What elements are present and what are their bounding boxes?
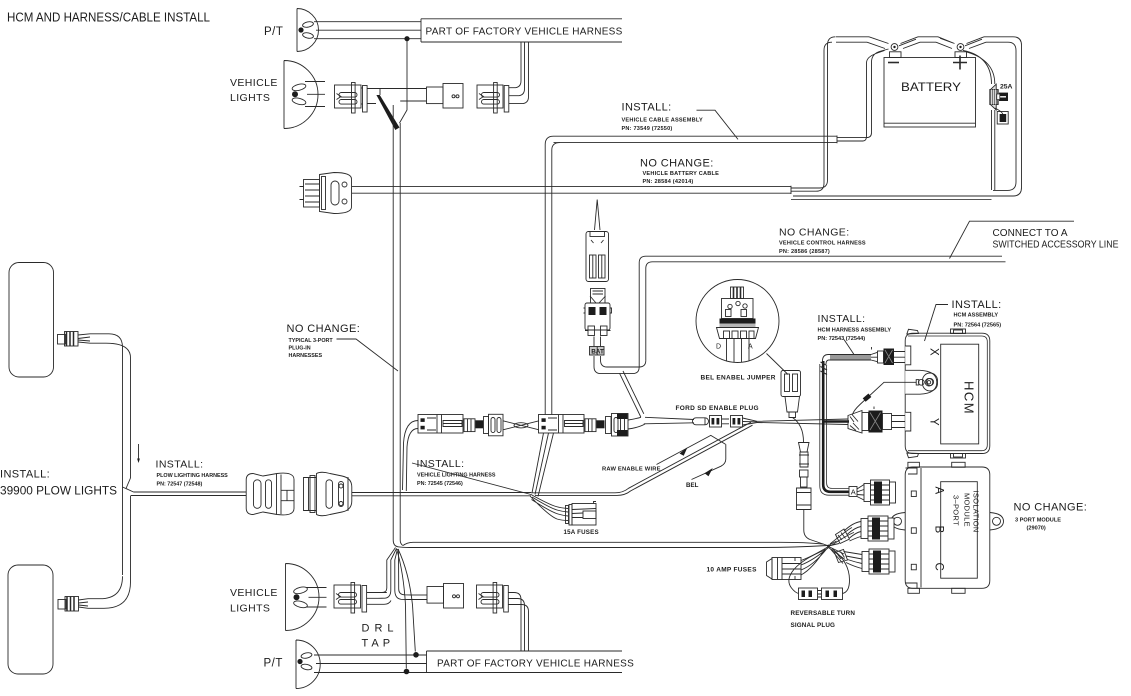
wire plow connector to 15A junction xyxy=(352,493,531,496)
svg-text:PN: 73549 (72550): PN: 73549 (72550) xyxy=(622,126,673,132)
X plug fan xyxy=(871,352,878,361)
svg-text:3–PORT: 3–PORT xyxy=(952,495,961,526)
vehicle cable tail pair to battery negative xyxy=(837,49,889,141)
wire positive to fuse xyxy=(963,51,995,191)
node dot bottom bottom-wire xyxy=(404,669,410,675)
heavy Y branch xyxy=(825,420,850,423)
BEL sleeve right edge leader xyxy=(692,444,726,479)
harness wrap (black tape) top row xyxy=(376,95,399,130)
wire control-harness branch diagonal to lighting run xyxy=(620,371,644,417)
Y plug connector xyxy=(862,407,905,433)
vehicle cable assembly (thick cable to battery) xyxy=(545,136,837,151)
vehicle control harness pair (to switched accessory) xyxy=(639,256,1005,367)
ford sd plug block 2 xyxy=(731,416,743,428)
vehicle cable verticals down to lighting row xyxy=(545,145,552,415)
svg-text:A: A xyxy=(748,344,753,351)
reversible plug block 1 xyxy=(799,588,818,600)
bullet connector stack xyxy=(797,443,812,510)
factory vehicle harness box (bottom) xyxy=(427,651,623,673)
wire eyelet to Y bundle xyxy=(853,382,917,414)
connector vehicle lights right (bottom row) xyxy=(477,583,509,614)
svg-text:Y: Y xyxy=(928,418,940,426)
isolation top tabs xyxy=(906,462,966,474)
svg-text:B: B xyxy=(933,526,945,534)
svg-text:NO CHANGE:: NO CHANGE: xyxy=(287,323,361,335)
wire long vertical pair (DRL harness run) xyxy=(393,105,400,540)
svg-text:HARNESSES: HARNESSES xyxy=(289,353,323,359)
wires from CE bottom to 15A junction xyxy=(532,433,554,497)
svg-text:VEHICLE CABLE ASSEMBLY: VEHICLE CABLE ASSEMBLY xyxy=(622,118,703,124)
svg-text:P/T: P/T xyxy=(264,26,283,38)
junction kink plow wires xyxy=(123,478,134,492)
X plug cable outline xyxy=(823,355,872,365)
svg-text:VEHICLE CONTROL HARNESS: VEHICLE CONTROL HARNESS xyxy=(779,240,866,246)
svg-text:FORD SD ENABLE PLUG: FORD SD ENABLE PLUG xyxy=(676,405,759,412)
svg-text:TAP: TAP xyxy=(362,638,395,650)
plow light lower xyxy=(8,565,53,674)
battery cable loop inner bottom line xyxy=(791,199,992,201)
plow connector female (dog-bone) xyxy=(246,473,294,515)
B plug fan wires xyxy=(829,528,855,547)
BEL circle (magnified view) xyxy=(696,280,779,363)
C plug connector xyxy=(862,549,895,574)
junction fan point xyxy=(827,545,830,548)
battery negative terminal tab xyxy=(890,52,902,58)
svg-text:VEHICLE: VEHICLE xyxy=(230,77,278,89)
leader HCM harness to cable xyxy=(844,340,854,355)
svg-text:P/T: P/T xyxy=(264,658,283,670)
svg-text:25A: 25A xyxy=(1000,84,1013,91)
connector CB lighting row xyxy=(464,414,503,436)
svg-text:PART OF FACTORY VEHICLE HARNES: PART OF FACTORY VEHICLE HARNESS xyxy=(426,27,623,38)
HCM X/Y port notches xyxy=(905,346,911,431)
vehicle lights lamp (bottom) xyxy=(286,564,319,631)
10A fuse block xyxy=(767,558,802,580)
isolation inner label plate xyxy=(941,482,978,579)
P/T lamp (top) xyxy=(297,8,319,51)
svg-text:DRL: DRL xyxy=(362,623,399,635)
fuse 25A body xyxy=(990,84,998,110)
Y plug fan wedge xyxy=(848,411,862,434)
HCM box xyxy=(905,333,990,453)
connector C2 inline (top row) xyxy=(400,84,463,109)
svg-text:BEL ENABEL JUMPER: BEL ENABEL JUMPER xyxy=(701,375,776,382)
svg-text:HCM: HCM xyxy=(962,381,977,415)
svg-text:X: X xyxy=(928,348,940,356)
15A junction fan to fuse block xyxy=(530,495,568,521)
svg-text:PLOW LIGHTING HARNESS: PLOW LIGHTING HARNESS xyxy=(157,473,229,479)
svg-text:TYPICAL 3-PORT: TYPICAL 3-PORT xyxy=(289,338,334,344)
wire BEL jumper down to bullet connectors xyxy=(793,418,804,443)
fuse tail connector xyxy=(995,108,1008,124)
svg-text:RAW ENABLE WIRE: RAW ENABLE WIRE xyxy=(602,467,661,473)
svg-text:SWITCHED ACCESSORY LINE: SWITCHED ACCESSORY LINE xyxy=(993,240,1119,251)
X plug cable gray band xyxy=(830,355,871,360)
15A fuse block xyxy=(566,502,597,526)
HCM mid screw tab xyxy=(923,373,938,391)
svg-text:VEHICLE LIGHTING HARNESS: VEHICLE LIGHTING HARNESS xyxy=(417,473,496,479)
svg-text:PART OF FACTORY VEHICLE HARNES: PART OF FACTORY VEHICLE HARNESS xyxy=(437,659,634,670)
reversible plug wire right xyxy=(832,549,850,594)
wires ford plug converge xyxy=(743,418,758,425)
svg-text:15A FUSES: 15A FUSES xyxy=(564,529,599,536)
reversible plug loop wire left xyxy=(789,550,826,594)
svg-text:INSTALL:: INSTALL: xyxy=(417,458,465,470)
battery cable loop top pair xyxy=(836,37,869,42)
arrow from cable down to connector stack xyxy=(595,200,601,231)
HCM top tabs xyxy=(907,329,966,334)
wire P/T top lead 1 xyxy=(314,21,421,23)
plow light upper xyxy=(9,263,54,378)
node dot bottom top-wire xyxy=(413,652,419,658)
connector CA lighting row left xyxy=(418,415,463,434)
B plug connector xyxy=(861,516,894,541)
svg-text:INSTALL:: INSTALL: xyxy=(622,102,672,114)
wire plow upper to vertical pair xyxy=(90,334,131,575)
arrowhead BEL xyxy=(705,468,713,476)
svg-text:NO CHANGE:: NO CHANGE: xyxy=(1014,502,1088,514)
X plug connector xyxy=(872,347,906,365)
battery positive terminal tab xyxy=(955,52,967,58)
battery minus symbol xyxy=(888,62,899,64)
svg-text:HCM ASSEMBLY: HCM ASSEMBLY xyxy=(954,313,999,319)
raw enable wire diagonal xyxy=(531,422,753,495)
svg-text:VEHICLE BATTERY CABLE: VEHICLE BATTERY CABLE xyxy=(643,171,720,177)
svg-text:SIGNAL PLUG: SIGNAL PLUG xyxy=(791,622,836,629)
wires lighting run to Y-plug fan xyxy=(644,417,848,424)
control harness U-turn to BAT lead xyxy=(594,356,646,374)
ford sd terminal pill xyxy=(693,418,709,425)
svg-text:BEL: BEL xyxy=(686,482,699,489)
svg-text:A: A xyxy=(851,488,856,497)
svg-text:INSTALL:: INSTALL: xyxy=(818,313,866,325)
connector vehicle lights left (bottom row) xyxy=(334,583,367,614)
BEL jumper connector (actual) xyxy=(781,371,801,418)
junction lower harness xyxy=(393,540,403,547)
positive clamp xyxy=(936,37,986,51)
harness trunk heavy vertical xyxy=(823,361,849,492)
HCM U-notch with screw tongue xyxy=(905,370,937,394)
bowtie splice xyxy=(503,421,539,430)
DRL tap bundle xyxy=(375,548,412,600)
svg-text:PN: 72543 (72544): PN: 72543 (72544) xyxy=(818,336,866,342)
vehicle lights leads (top) xyxy=(305,82,325,107)
wires bottom right connector down to factory box xyxy=(508,593,528,652)
C plug fan wires xyxy=(829,547,846,564)
wires CA left curving down xyxy=(403,421,419,492)
leader typical 3-port xyxy=(337,339,399,371)
battery cable connector (left end) xyxy=(300,173,352,214)
plow light lower connector xyxy=(58,597,88,612)
leader HCM assembly xyxy=(925,305,949,342)
eyelet terminal xyxy=(916,379,924,385)
svg-text:39900 PLOW LIGHTS: 39900 PLOW LIGHTS xyxy=(0,486,117,498)
wires CF right joining run xyxy=(628,417,645,429)
wires DRL verticals to P/T taps xyxy=(397,549,416,669)
wire bullet stack to fan junction xyxy=(804,510,828,546)
svg-text:PN: 72545 (72546): PN: 72545 (72546) xyxy=(417,481,463,487)
svg-text:NO CHANGE:: NO CHANGE: xyxy=(779,227,850,239)
P/T lamp (bottom) xyxy=(296,640,320,689)
wire P/T top lead 2 xyxy=(316,29,421,31)
battery cable loop mid-top pair xyxy=(918,37,938,42)
svg-text:BATTERY: BATTERY xyxy=(901,80,961,94)
wires C3 to factory box xyxy=(509,42,529,104)
wire plow lower to vertical pair xyxy=(88,496,131,609)
svg-text:MODULE: MODULE xyxy=(963,493,972,527)
svg-text:PN: 72564 (72565): PN: 72564 (72565) xyxy=(954,323,1002,329)
isolation bottom tabs xyxy=(906,583,966,593)
connector CF lighting row right xyxy=(585,414,628,437)
vehicle lights leads (bottom) xyxy=(307,588,327,608)
plow light upper connector xyxy=(58,332,91,347)
C plug wires to connector xyxy=(844,552,863,569)
BEL jumper internal drawing xyxy=(717,287,759,362)
svg-text:REVERSABLE TURN: REVERSABLE TURN xyxy=(791,610,856,617)
svg-text:HCM HARNESS ASSEMBLY: HCM HARNESS ASSEMBLY xyxy=(818,327,892,333)
reversible plug bracket xyxy=(818,591,822,598)
svg-text:LIGHTS: LIGHTS xyxy=(230,92,270,104)
svg-text:PN: 28586 (28587): PN: 28586 (28587) xyxy=(779,249,830,255)
trunk hatch wrap xyxy=(821,362,828,375)
A tag box xyxy=(849,487,857,497)
svg-text:3 PORT MODULE: 3 PORT MODULE xyxy=(1015,518,1061,524)
battery box xyxy=(884,58,976,128)
B plug wires to connector xyxy=(844,522,861,542)
isolation right ear xyxy=(990,513,1004,531)
plow connector male (dog-bone) xyxy=(304,472,352,516)
C wedge xyxy=(835,550,848,563)
svg-text:INSTALL:: INSTALL: xyxy=(156,459,204,471)
isolation module notches xyxy=(911,491,916,570)
svg-text:NO CHANGE:: NO CHANGE: xyxy=(640,158,714,170)
arrowhead raw enable wire xyxy=(680,447,688,456)
svg-text:PN: 72547 (72548): PN: 72547 (72548) xyxy=(157,482,203,488)
HCM bottom tabs xyxy=(907,453,966,458)
leader for vehicle cable assembly xyxy=(697,110,739,139)
B wedge xyxy=(836,529,850,544)
svg-text:VEHICLE: VEHICLE xyxy=(230,587,278,599)
connector CE lighting row center xyxy=(539,415,585,434)
BEL sleeve upper leader xyxy=(657,435,726,464)
leader circle to jumper connector xyxy=(767,354,789,375)
connector C1 vehicle lights left (top row) xyxy=(335,83,368,114)
vehicle lights lamp (top) xyxy=(284,61,318,129)
wire BAT stub xyxy=(594,337,601,356)
battery cable tail pair up left side of battery xyxy=(791,37,836,191)
factory vehicle harness box (top) xyxy=(421,19,622,42)
connector stack top (large plug) xyxy=(586,232,609,282)
svg-text:PN: 28584 (42014): PN: 28584 (42014) xyxy=(643,179,694,185)
inline bead on eyelet wire xyxy=(863,394,872,402)
isolation module box xyxy=(905,467,990,588)
wires P/T bottom leads xyxy=(314,655,427,673)
svg-text:A: A xyxy=(933,487,945,495)
svg-text:C: C xyxy=(933,563,945,571)
node junction dot on P/T lead xyxy=(404,36,409,41)
connector stack mid (lower piece) xyxy=(584,289,612,336)
svg-text:10 AMP FUSES: 10 AMP FUSES xyxy=(707,567,758,574)
arrow marker above plow junction xyxy=(138,444,140,459)
svg-text:(29070): (29070) xyxy=(1027,526,1046,532)
battery plus symbol xyxy=(953,56,967,70)
svg-text:INSTALL:: INSTALL: xyxy=(0,469,50,481)
svg-text:PLUG-IN: PLUG-IN xyxy=(289,345,311,351)
trunk outline thin xyxy=(820,364,849,495)
ford sd plug block 1 xyxy=(710,416,722,428)
A plug fan xyxy=(857,485,864,501)
svg-text:D: D xyxy=(716,344,721,351)
svg-text:INSTALL:: INSTALL: xyxy=(952,299,1002,311)
wire drop from dot to harness xyxy=(400,41,408,123)
negative clamp xyxy=(867,37,920,51)
fuse 25A clip xyxy=(997,93,1008,101)
svg-text:CONNECT TO A: CONNECT TO A xyxy=(993,228,1068,239)
svg-text:HCM AND HARNESS/CABLE INSTALL: HCM AND HARNESS/CABLE INSTALL xyxy=(7,10,210,25)
connector C2 inline (bottom row) xyxy=(408,584,464,609)
wires junction to 10A fuse block xyxy=(801,547,829,576)
isolation rotated text xyxy=(952,491,981,533)
wire C1 to tap split xyxy=(367,89,426,104)
A plug connector xyxy=(864,480,896,505)
wire P/T top lead 3 xyxy=(314,38,421,40)
wire pair junction to big fan xyxy=(398,542,828,547)
wires bottom-left connector to tap xyxy=(367,593,391,605)
wire diagonal CA area to 15A junction xyxy=(412,463,531,495)
isolation left ear xyxy=(891,513,905,531)
connector C3 vehicle lights right (top row) xyxy=(477,83,509,114)
HCM inner label plate xyxy=(941,344,979,444)
svg-text:ISOLATION: ISOLATION xyxy=(972,491,981,533)
wire plow junction to connector xyxy=(131,492,246,496)
leader for switched accessory line xyxy=(950,221,1075,258)
reversible plug block 2 xyxy=(822,588,843,600)
svg-text:LIGHTS: LIGHTS xyxy=(230,603,270,615)
ford sd plug bracket xyxy=(722,419,729,424)
vehicle battery cable (thick) xyxy=(352,186,791,194)
battery cable loop right-top pair with corner xyxy=(793,37,1022,196)
BAT block xyxy=(590,347,605,356)
